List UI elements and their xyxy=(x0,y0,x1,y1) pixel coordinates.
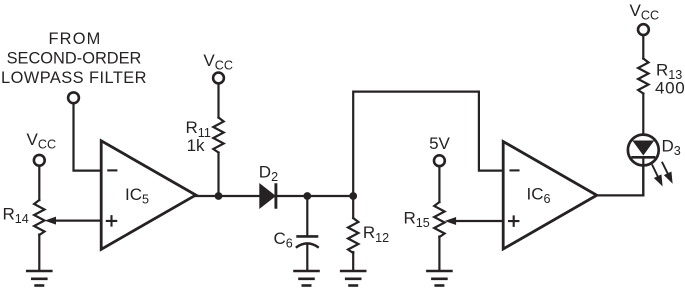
capacitor C6 bottom curved plate xyxy=(297,243,318,247)
R14 wiper arrow xyxy=(45,217,57,225)
svg-text:5V: 5V xyxy=(429,134,450,153)
wire: IC5 output to D2 xyxy=(196,195,260,197)
wire: node down to R12 xyxy=(352,196,354,218)
potentiometer R14 xyxy=(34,200,44,235)
wire: R15 wiper to IC6 + input xyxy=(455,220,504,222)
D2 cathode bar xyxy=(274,185,277,208)
ground (R15) xyxy=(427,271,451,286)
wire: LED cathode through circle to output wire xyxy=(642,159,644,196)
LED D3 circle xyxy=(628,135,659,166)
svg-text:SECOND-ORDER: SECOND-ORDER xyxy=(7,50,142,68)
R12 label xyxy=(363,223,389,245)
junction dot (C6 node) xyxy=(303,192,311,200)
op-amp IC5 xyxy=(101,141,196,250)
wire: 5V to R15 xyxy=(438,166,440,202)
Vcc label (right) xyxy=(630,1,660,23)
svg-text:VCC: VCC xyxy=(27,130,57,152)
wire: R14 bottom to ground xyxy=(38,235,40,271)
wire: R12 node up and over to IC6 inverting input xyxy=(353,92,503,196)
svg-text:VCC: VCC xyxy=(203,51,233,73)
wire: IC6 output to LED branch xyxy=(597,166,644,195)
potentiometer R15 xyxy=(434,202,444,237)
ground (R12) xyxy=(341,271,365,286)
IC5 plus sign xyxy=(107,216,116,225)
wire: node down to C6 xyxy=(306,196,308,235)
IC6 label xyxy=(527,185,551,207)
op-amp IC6 xyxy=(503,142,597,250)
R15 wiper arrow xyxy=(445,217,457,225)
wire: R11 bottom to output node xyxy=(217,153,219,197)
LED D3 triangle xyxy=(634,141,653,154)
wire: Vcc to R13 xyxy=(642,35,644,58)
LED light arrow 2 xyxy=(662,163,672,183)
R15 label xyxy=(404,209,430,231)
5V label xyxy=(429,134,450,153)
Vcc terminal (right) xyxy=(638,24,649,35)
wire: C6 to ground xyxy=(306,246,308,271)
diode D2 xyxy=(260,185,274,207)
svg-text:400: 400 xyxy=(655,79,685,98)
IC6 minus sign xyxy=(511,169,519,171)
C6 label xyxy=(274,229,293,251)
svg-text:C6: C6 xyxy=(274,229,293,251)
input terminal circle xyxy=(68,92,79,103)
wire: R15 bottom to ground xyxy=(438,237,440,271)
resistor R12 xyxy=(348,218,358,253)
R13 label xyxy=(655,61,685,98)
wire: input terminal to IC5 inverting input xyxy=(74,103,102,170)
svg-text:R14: R14 xyxy=(3,205,29,227)
svg-text:1k: 1k xyxy=(187,136,205,155)
junction dot (R11/output) xyxy=(215,192,223,200)
svg-text:VCC: VCC xyxy=(630,1,660,23)
R11 label xyxy=(186,118,211,155)
D3 label xyxy=(662,137,681,159)
IC6 plus sign xyxy=(509,216,518,225)
resistor R11 xyxy=(213,118,223,153)
IC5 minus sign xyxy=(108,169,116,171)
junction dot (R12 node) xyxy=(349,192,357,200)
5V terminal xyxy=(434,155,445,166)
wire: R14 wiper to IC5 + input xyxy=(55,220,102,222)
wire: R12 bottom to ground xyxy=(352,252,354,271)
node label: FROM SECOND-ORDER LOWPASS FILTER xyxy=(1,30,147,87)
wire: D2 to R12 node xyxy=(277,195,353,197)
LED light arrow 1 xyxy=(652,165,662,185)
svg-text:LOWPASS FILTER: LOWPASS FILTER xyxy=(1,69,147,87)
Vcc label (left) xyxy=(27,130,57,152)
svg-text:D2: D2 xyxy=(259,162,278,184)
ground (C6) xyxy=(295,271,319,286)
wire: R13 to LED xyxy=(642,94,644,142)
wire: Vcc to R11 xyxy=(217,83,219,117)
Vcc terminal (left) xyxy=(34,155,45,166)
ground (R14) xyxy=(27,271,51,286)
Vcc terminal (R11) xyxy=(213,73,224,84)
D2 label xyxy=(259,162,278,184)
wire: Vcc to R14 top xyxy=(38,166,40,200)
capacitor C6 top plate xyxy=(298,235,317,238)
R14 label xyxy=(3,205,29,227)
svg-text:R15: R15 xyxy=(404,209,430,231)
Vcc label (R11) xyxy=(203,51,233,73)
IC5 label xyxy=(125,185,149,207)
svg-text:R12: R12 xyxy=(363,223,389,245)
LED D3 cathode bar xyxy=(633,156,654,159)
svg-text:FROM: FROM xyxy=(48,30,101,48)
svg-text:D3: D3 xyxy=(662,137,681,159)
resistor R13 xyxy=(638,59,648,94)
